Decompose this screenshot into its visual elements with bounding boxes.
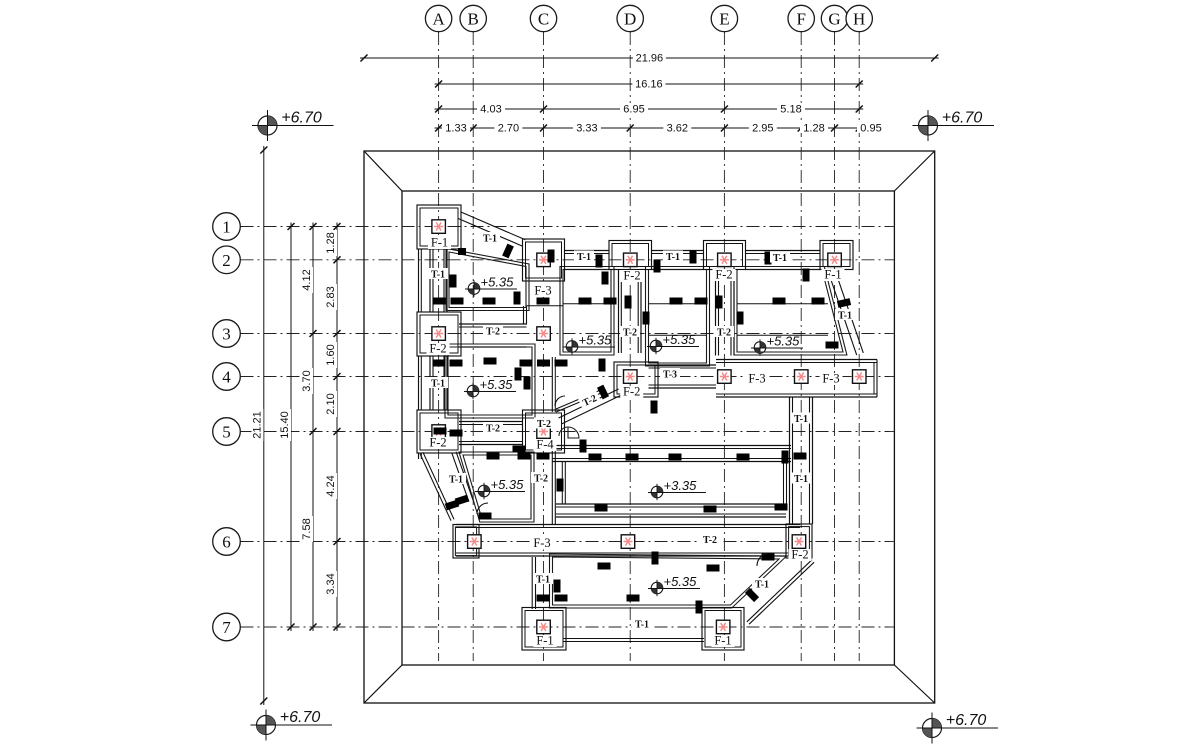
svg-text:7.58: 7.58 [301,518,313,539]
svg-text:+6.70: +6.70 [281,110,322,127]
svg-text:T-2: T-2 [486,424,500,435]
svg-text:0.95: 0.95 [860,123,881,135]
svg-text:T-1: T-1 [431,270,445,281]
svg-text:C: C [538,10,549,29]
svg-text:2.10: 2.10 [325,393,337,414]
svg-text:A: A [432,10,445,29]
svg-text:+5.35: +5.35 [664,574,698,589]
svg-text:+5.35: +5.35 [579,333,613,348]
svg-text:F-1: F-1 [536,634,553,648]
svg-text:T-1: T-1 [838,311,852,322]
svg-text:F-1: F-1 [431,236,448,250]
svg-text:T-1: T-1 [773,253,787,264]
svg-text:6: 6 [222,533,231,552]
svg-text:F: F [796,10,805,29]
svg-text:3.70: 3.70 [301,370,313,391]
svg-text:3.62: 3.62 [667,123,688,135]
svg-text:T-1: T-1 [536,575,550,586]
svg-text:2.95: 2.95 [752,123,773,135]
svg-text:F-1: F-1 [714,634,731,648]
svg-text:T-1: T-1 [666,252,680,263]
svg-text:F-2: F-2 [623,269,640,283]
svg-text:+5.35: +5.35 [491,477,525,492]
svg-text:+5.35: +5.35 [481,275,515,290]
svg-text:1.28: 1.28 [325,232,337,253]
svg-text:F-4: F-4 [536,438,554,452]
svg-text:T-1: T-1 [577,252,591,263]
svg-text:+6.70: +6.70 [942,110,983,127]
svg-text:1.28: 1.28 [803,123,824,135]
svg-text:3: 3 [222,325,231,344]
svg-text:T-2: T-2 [717,328,731,339]
svg-text:D: D [624,10,636,29]
svg-text:4.24: 4.24 [325,475,337,496]
svg-text:4.03: 4.03 [480,104,501,116]
svg-text:+6.70: +6.70 [946,712,987,729]
svg-text:T-2: T-2 [623,328,637,339]
svg-text:3.33: 3.33 [576,123,597,135]
svg-text:T-2: T-2 [537,419,551,430]
svg-text:T-2: T-2 [703,535,717,546]
svg-text:F-2: F-2 [623,385,640,399]
svg-text:5: 5 [222,423,231,442]
svg-text:16.16: 16.16 [635,79,663,91]
svg-text:T-1: T-1 [431,379,445,390]
svg-text:6.95: 6.95 [623,104,644,116]
svg-text:15.40: 15.40 [279,411,291,439]
svg-text:+6.70: +6.70 [280,709,321,726]
svg-text:F-2: F-2 [429,342,446,356]
svg-text:F-3: F-3 [748,372,765,386]
svg-text:4.12: 4.12 [301,269,313,290]
svg-text:5.18: 5.18 [780,104,801,116]
svg-text:T-1: T-1 [635,620,649,631]
svg-text:F-2: F-2 [715,268,732,282]
svg-text:H: H [853,10,865,29]
svg-text:1.60: 1.60 [325,344,337,365]
svg-text:G: G [828,10,840,29]
svg-text:2: 2 [222,251,231,270]
svg-text:B: B [468,10,479,29]
svg-text:F-3: F-3 [822,372,839,386]
svg-text:1.33: 1.33 [445,123,466,135]
svg-text:T-2: T-2 [534,474,548,485]
svg-text:T-1: T-1 [449,475,463,486]
svg-text:21.96: 21.96 [636,53,664,65]
svg-text:T-1: T-1 [483,234,497,245]
svg-text:3.34: 3.34 [325,573,337,594]
svg-text:F-3: F-3 [533,536,550,550]
svg-text:+5.35: +5.35 [480,377,514,392]
svg-text:T-1: T-1 [755,580,769,591]
svg-text:E: E [719,10,729,29]
svg-text:F-2: F-2 [429,436,446,450]
svg-text:7: 7 [222,618,231,637]
svg-text:T-1: T-1 [794,414,808,425]
svg-text:1: 1 [222,218,231,237]
svg-text:2.83: 2.83 [325,286,337,307]
svg-text:F-3: F-3 [534,284,551,298]
svg-text:F-1: F-1 [824,268,841,282]
svg-text:+5.35: +5.35 [663,332,697,347]
svg-text:T-2: T-2 [486,327,500,338]
svg-text:T-1: T-1 [794,474,808,485]
svg-text:4: 4 [222,368,231,387]
svg-text:+3.35: +3.35 [664,478,698,493]
svg-text:21.21: 21.21 [252,411,264,439]
svg-text:2.70: 2.70 [498,123,519,135]
svg-text:T-3: T-3 [663,370,677,381]
svg-text:F-2: F-2 [791,548,808,562]
svg-text:+5.35: +5.35 [767,334,801,349]
